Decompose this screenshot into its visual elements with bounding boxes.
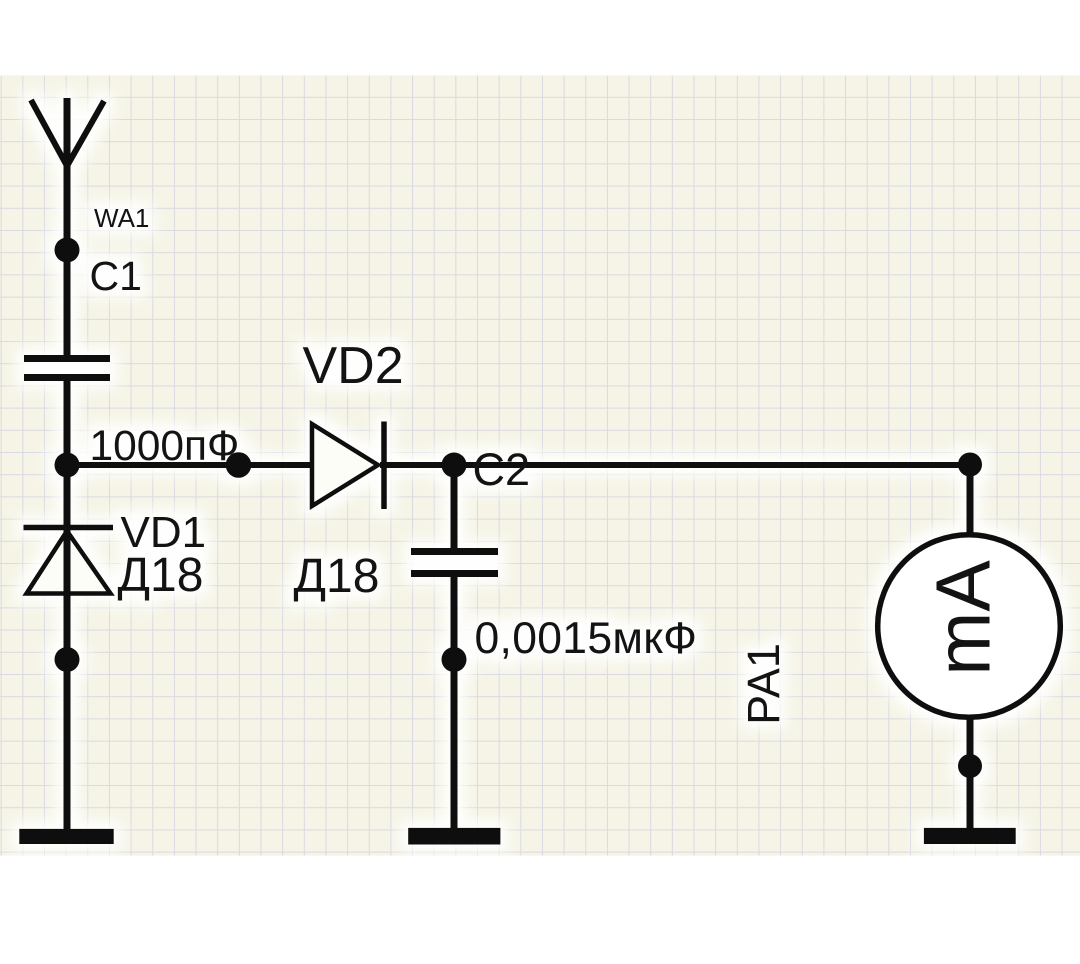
white halo under ink [19, 98, 1060, 845]
circuit ink [19, 98, 1060, 845]
